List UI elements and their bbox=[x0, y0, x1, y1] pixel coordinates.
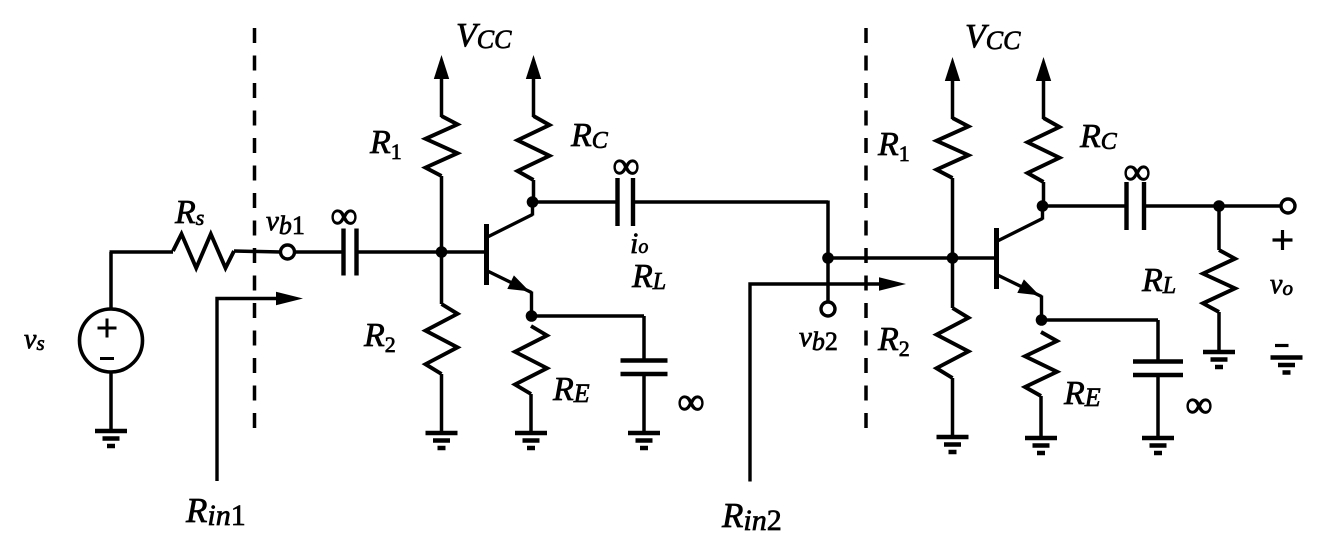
wire bbox=[532, 314, 645, 318]
label plus output bbox=[1273, 238, 1293, 241]
resistor RC stage2 bbox=[1028, 118, 1060, 182]
svg-text:vb1: vb1 bbox=[266, 205, 305, 240]
node emitter2 bbox=[1036, 314, 1048, 326]
ground bbox=[515, 431, 547, 436]
node output junction bbox=[1213, 200, 1225, 212]
wire bbox=[1217, 206, 1221, 250]
node base1 junction bbox=[436, 246, 448, 258]
capacitor CE2 (infinite) bbox=[1133, 359, 1183, 363]
wire bbox=[642, 316, 646, 361]
dashed boundary line 1 bbox=[253, 28, 257, 432]
VCC arrow 1 bbox=[434, 55, 449, 117]
resistor RC stage1 bbox=[518, 116, 550, 180]
ground bbox=[1142, 436, 1174, 441]
wire bbox=[1042, 318, 1159, 322]
wire bbox=[110, 250, 174, 254]
wire bbox=[642, 374, 646, 433]
wire bbox=[1039, 396, 1043, 438]
wire bbox=[440, 374, 444, 433]
VCC arrow 2 bbox=[526, 55, 541, 117]
node v_b1 bbox=[281, 245, 295, 259]
resistor R1 stage2 bbox=[937, 118, 969, 178]
resistor RE stage1 bbox=[515, 326, 547, 394]
VCC arrow 3 bbox=[945, 57, 960, 119]
transistor Q2 bbox=[997, 205, 1043, 320]
capacitor C3 (infinite) bbox=[1124, 182, 1128, 230]
capacitor C1 (infinite) bbox=[341, 229, 345, 276]
resistor R2 stage1 bbox=[426, 304, 458, 374]
wire bbox=[951, 178, 955, 308]
transistor Q1 bbox=[487, 201, 533, 316]
wire bbox=[295, 250, 344, 254]
node v_b2 bbox=[821, 302, 835, 316]
wire bbox=[533, 200, 618, 204]
wire bbox=[951, 378, 955, 437]
resistor RE stage2 bbox=[1025, 332, 1057, 396]
wire bbox=[532, 180, 536, 202]
svg-text:∞: ∞ bbox=[1185, 384, 1212, 426]
ground bbox=[1203, 350, 1235, 355]
wire bbox=[529, 394, 533, 433]
wire bbox=[1043, 204, 1127, 208]
terminal v_o bbox=[1281, 199, 1295, 213]
VCC arrow 4 bbox=[1036, 57, 1051, 119]
wire bbox=[357, 250, 487, 254]
svg-text:∞: ∞ bbox=[677, 381, 704, 423]
ground bbox=[1025, 436, 1057, 441]
capacitor CE1 (infinite) bbox=[621, 358, 668, 362]
resistor R2 stage2 bbox=[937, 308, 969, 378]
wire bbox=[633, 200, 828, 204]
capacitor C2 (infinite) bbox=[615, 178, 619, 226]
wire stub v_b2 bbox=[826, 258, 830, 302]
ground bbox=[628, 431, 660, 436]
resistor R_s bbox=[173, 234, 234, 268]
wire bbox=[109, 252, 113, 309]
wire bbox=[828, 256, 953, 260]
wire bbox=[1156, 375, 1160, 438]
wire bbox=[953, 256, 997, 260]
svg-text:∞: ∞ bbox=[330, 195, 357, 237]
node collector2 bbox=[1037, 200, 1049, 212]
node emitter1 bbox=[526, 310, 538, 322]
wire bbox=[1042, 182, 1046, 206]
ground bbox=[95, 372, 127, 446]
R_in2 arrow bbox=[750, 277, 906, 481]
svg-text:∞: ∞ bbox=[1123, 151, 1150, 193]
label minus output bbox=[1275, 344, 1289, 347]
wire bbox=[826, 201, 830, 259]
svg-text:∞: ∞ bbox=[612, 145, 639, 187]
node collector1 bbox=[527, 196, 539, 208]
ground bbox=[426, 431, 458, 436]
dashed boundary line 2 bbox=[864, 28, 868, 432]
R_in1 arrow bbox=[217, 292, 303, 481]
svg-text:vb2: vb2 bbox=[799, 321, 838, 356]
wire bbox=[1156, 320, 1160, 362]
voltage source v_s bbox=[80, 309, 143, 372]
wire bbox=[1217, 312, 1221, 352]
wire bbox=[234, 251, 281, 252]
resistor R1 stage1 bbox=[426, 116, 458, 176]
ground bbox=[937, 435, 969, 440]
ground (output reference) bbox=[1271, 355, 1303, 360]
node v_b2 junction bbox=[822, 252, 834, 264]
node base2 junction bbox=[947, 252, 959, 264]
wire bbox=[440, 176, 444, 304]
resistor RL stage2 bbox=[1203, 250, 1235, 312]
wire bbox=[1144, 204, 1281, 208]
